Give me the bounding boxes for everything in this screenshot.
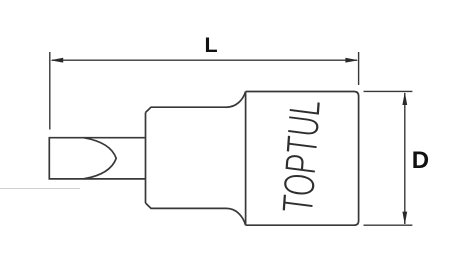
svg-text:L: L (205, 33, 218, 57)
svg-text:D: D (412, 147, 429, 174)
svg-text:TOPTUL: TOPTUL (272, 100, 330, 214)
